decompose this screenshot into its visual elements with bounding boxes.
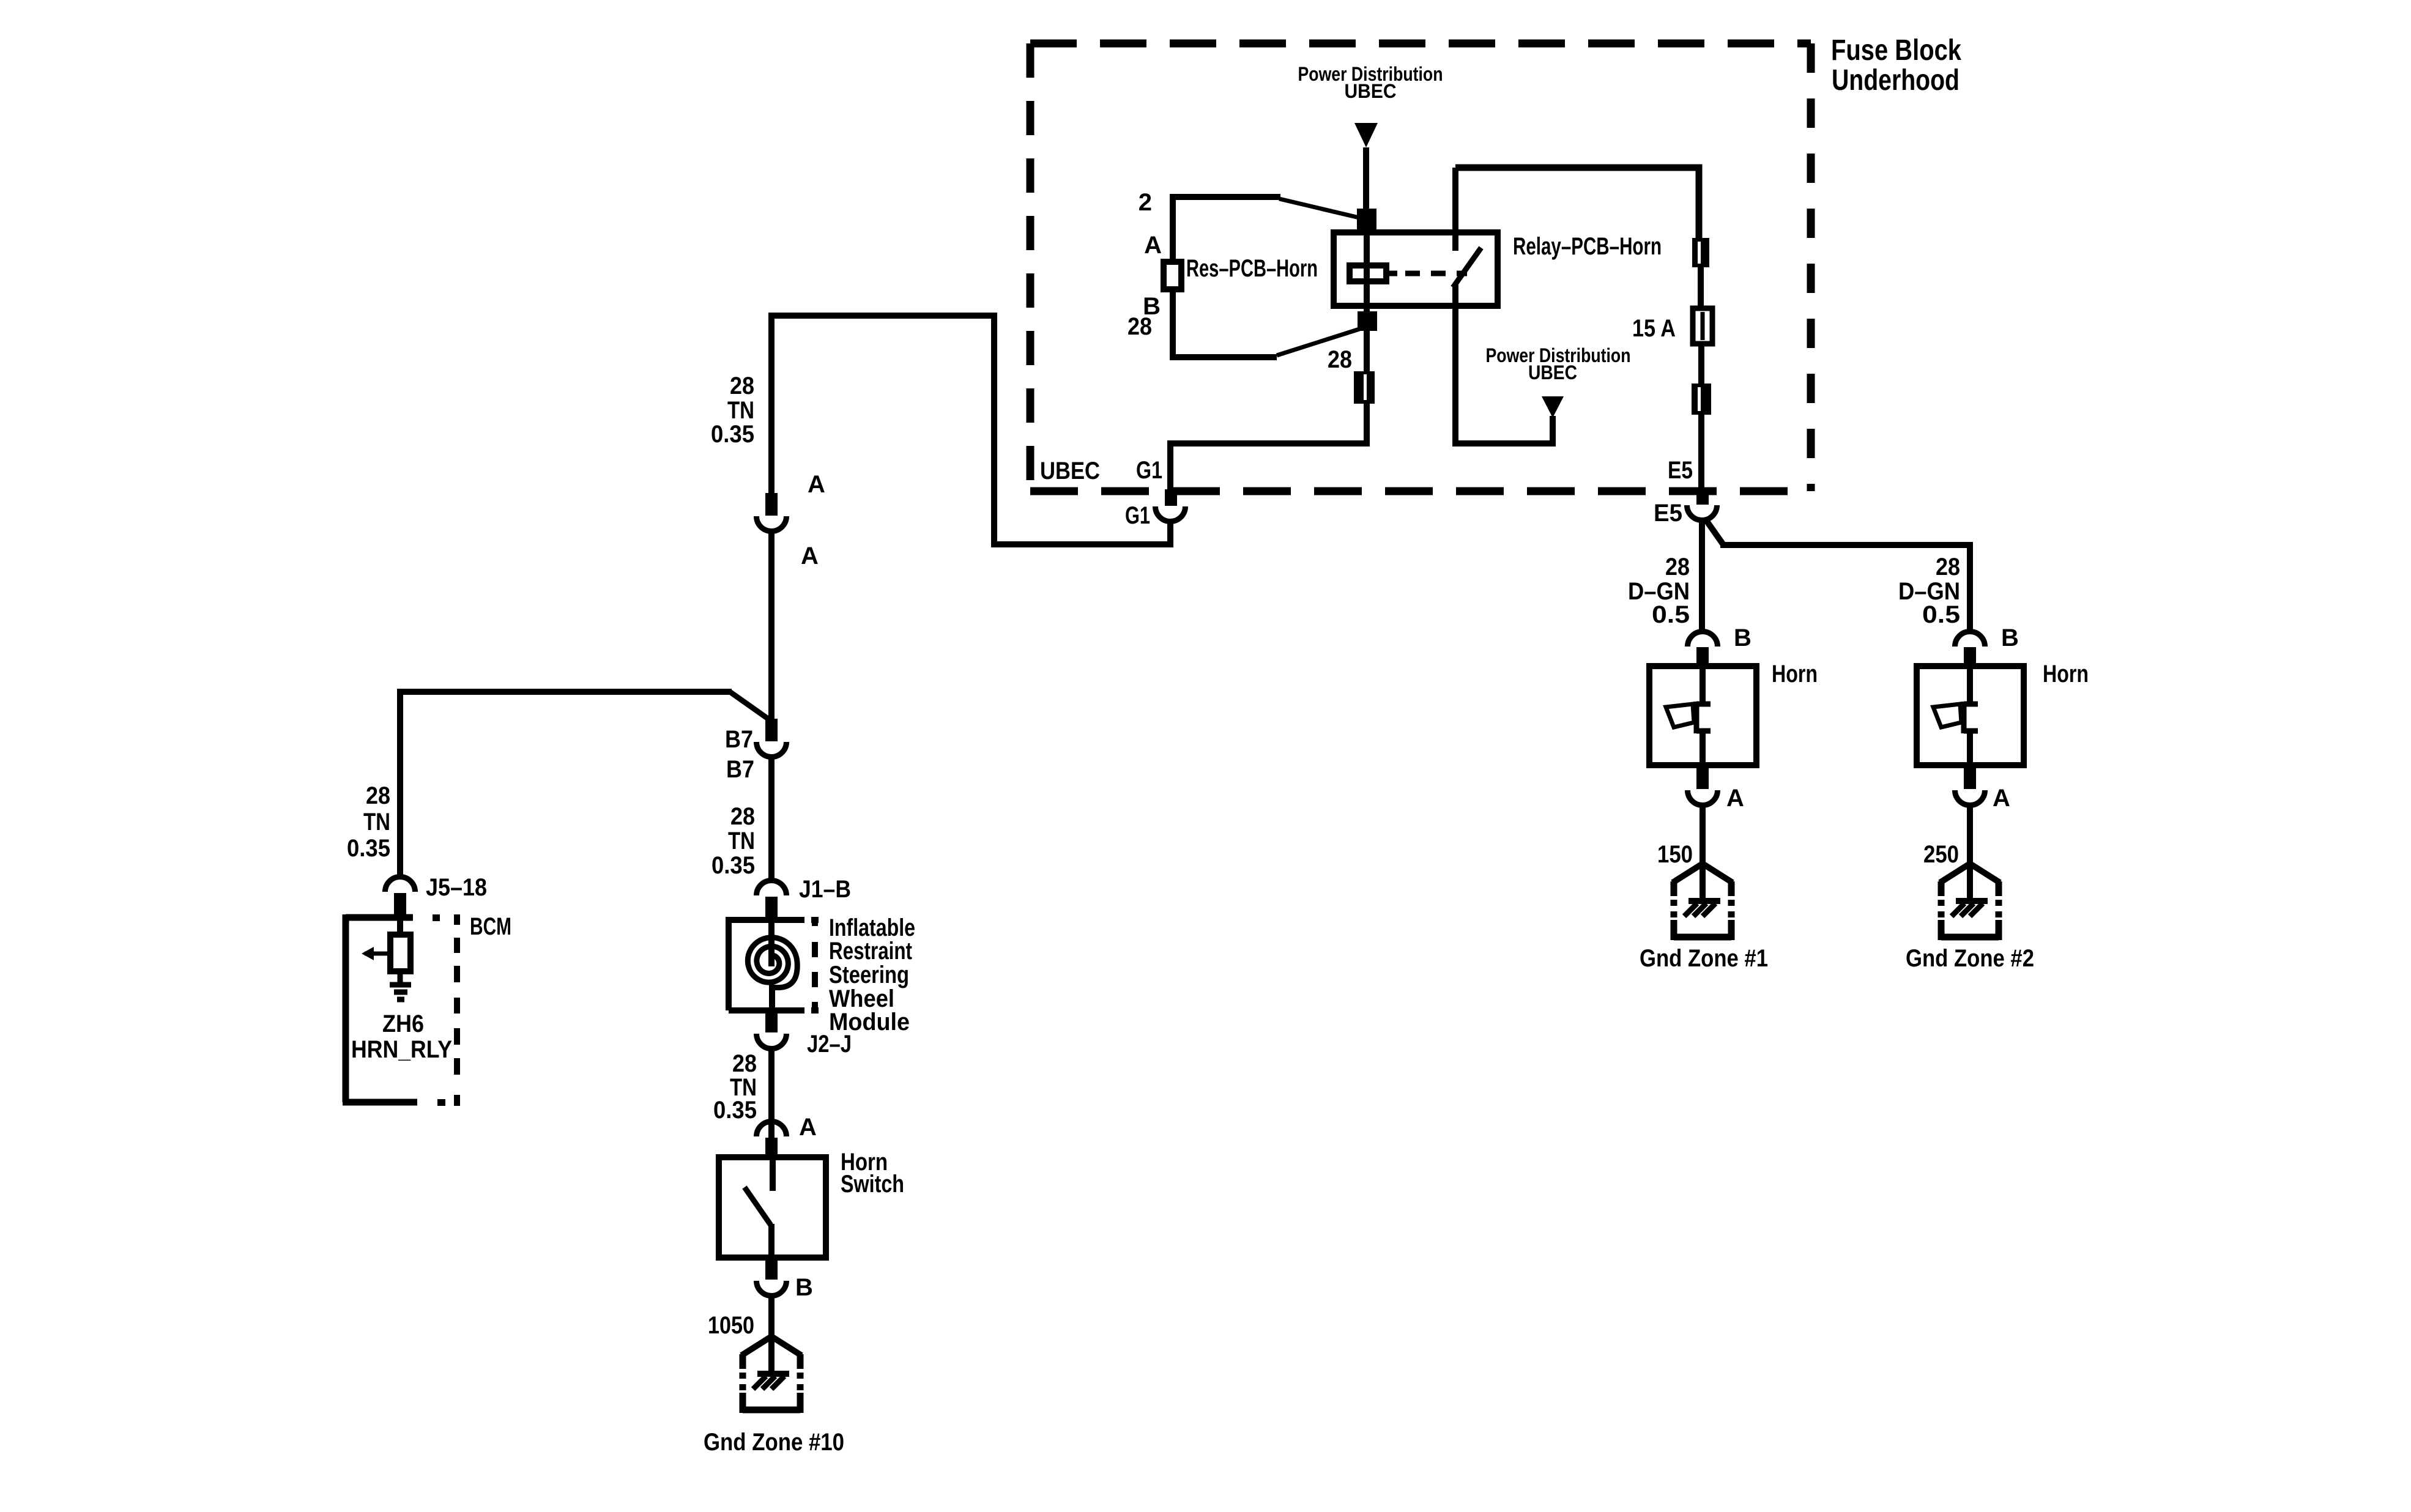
- wire G1 terminal loop: [1170, 404, 1367, 489]
- svg-text:HRN_RLY: HRN_RLY: [351, 1036, 452, 1063]
- svg-text:Underhood: Underhood: [1832, 64, 1960, 97]
- connector A socket: [757, 516, 787, 532]
- res loop top wire: [1173, 197, 1280, 265]
- connector A pin (horn switch): [765, 1138, 778, 1158]
- fuse block underhood dashed box - left edge: [1027, 43, 1035, 491]
- horn 1 bottom pin: [1696, 765, 1709, 789]
- BCM driver arrow: [365, 952, 387, 956]
- svg-text:Res–PCB–Horn: Res–PCB–Horn: [1186, 255, 1318, 282]
- svg-text:J1–B: J1–B: [799, 876, 851, 903]
- module clockspring spiral: [748, 938, 797, 988]
- svg-text:B: B: [2001, 624, 2019, 651]
- BCM box bottom dot: [437, 1099, 445, 1106]
- relay coil wire through coil: [1364, 265, 1370, 281]
- svg-text:0.35: 0.35: [711, 852, 755, 879]
- svg-text:B: B: [795, 1274, 813, 1301]
- connector B7 pin: [765, 719, 778, 741]
- terminal pin (fuse top): [1692, 238, 1709, 267]
- connector J2-J socket: [757, 1034, 787, 1049]
- svg-text:28: 28: [732, 1050, 757, 1077]
- fuse 15 A: [1693, 308, 1712, 344]
- svg-text:28: 28: [730, 803, 755, 830]
- svg-text:E5: E5: [1654, 500, 1682, 527]
- svg-text:28: 28: [366, 782, 390, 809]
- connector B socket (horn 1): [1688, 632, 1718, 647]
- BCM driver ground wire: [398, 971, 403, 984]
- module box solid edges: [729, 920, 804, 1010]
- wire J2-J to horn switch A: [768, 1048, 775, 1139]
- svg-text:28: 28: [1127, 313, 1152, 340]
- svg-text:Horn: Horn: [1772, 661, 1818, 687]
- svg-text:0.35: 0.35: [347, 835, 390, 862]
- svg-text:TN: TN: [363, 809, 390, 836]
- connector G1 socket: [1156, 506, 1186, 522]
- module bottom pin: [765, 1010, 778, 1032]
- svg-text:250: 250: [1923, 841, 1959, 868]
- connector G1 pin: [1165, 489, 1177, 506]
- horn 1 box: [1649, 666, 1756, 765]
- fuse block underhood dashed box - right edge: [1807, 43, 1815, 491]
- ground Gnd Zone 10: [741, 1336, 771, 1355]
- svg-text:TN: TN: [727, 397, 754, 424]
- terminal pin (below fuse): [1692, 384, 1711, 415]
- wire A to B7: [768, 531, 775, 721]
- horn switch pivot wire: [768, 1224, 775, 1258]
- wire J5-18 pin to driver: [397, 917, 403, 937]
- svg-text:15 A: 15 A: [1632, 315, 1676, 342]
- svg-text:A: A: [808, 471, 825, 498]
- svg-text:UBEC: UBEC: [1040, 458, 1100, 484]
- svg-text:Switch: Switch: [841, 1171, 904, 1198]
- connector B socket (horn 2): [1955, 632, 1985, 647]
- svg-text:Gnd Zone #1: Gnd Zone #1: [1640, 945, 1768, 972]
- svg-text:A: A: [1144, 232, 1162, 259]
- svg-text:Fuse Block: Fuse Block: [1831, 34, 1961, 67]
- fuse block underhood dashed box - bottom edge: [1030, 487, 1811, 495]
- connector A socket (horn switch): [757, 1121, 787, 1136]
- svg-text:J5–18: J5–18: [426, 874, 487, 901]
- connector B socket (horn switch): [757, 1281, 787, 1296]
- connector J1-B pin: [765, 897, 778, 920]
- svg-text:1050: 1050: [708, 1312, 754, 1339]
- svg-text:A: A: [801, 543, 819, 569]
- svg-text:0.5: 0.5: [1652, 601, 1690, 628]
- ground Gnd Zone 1: [1673, 864, 1703, 883]
- wire BCM branch horizontal: [400, 692, 732, 878]
- power distribution arrow (relay output): [1542, 396, 1564, 418]
- svg-text:Steering: Steering: [829, 962, 909, 988]
- connector B7 socket: [757, 742, 787, 757]
- svg-text:B: B: [1734, 624, 1752, 651]
- res loop bottom diagonal: [1277, 329, 1359, 355]
- svg-text:BCM: BCM: [470, 913, 511, 940]
- connector A socket (horn 2): [1955, 790, 1985, 806]
- terminal 28 below relay: [1354, 371, 1375, 404]
- svg-text:0.35: 0.35: [711, 421, 754, 448]
- relay switch blade: [1453, 248, 1481, 287]
- svg-text:UBEC: UBEC: [1345, 80, 1397, 102]
- connector E5 socket: [1687, 505, 1717, 521]
- BCM box dashed right edge: [454, 914, 460, 925]
- wire terminal to E5 pin: [1698, 415, 1704, 489]
- relay switch fixed contact from top: [1452, 168, 1458, 251]
- svg-text:Restraint: Restraint: [829, 938, 912, 965]
- svg-text:G1: G1: [1136, 457, 1162, 484]
- wire horn switch B to ground: [768, 1295, 775, 1341]
- svg-text:UBEC: UBEC: [1528, 361, 1577, 384]
- svg-text:0.35: 0.35: [713, 1097, 757, 1124]
- horn switch box: [719, 1157, 826, 1258]
- svg-text:28: 28: [1665, 554, 1690, 580]
- horn switch blade: [745, 1187, 771, 1225]
- wire arrow to relay coil pin: [1363, 147, 1369, 209]
- wire pin to fuse: [1698, 267, 1704, 311]
- svg-text:B7: B7: [726, 756, 754, 783]
- relay Relay-PCB-Horn box: [1334, 232, 1498, 306]
- horn 2 box: [1917, 666, 2024, 765]
- connector J1-B socket: [757, 881, 787, 896]
- wire horn 1 to ground: [1700, 805, 1706, 865]
- wire E5 to horn 1: [1699, 521, 1705, 631]
- horn 2 bottom pin: [1964, 765, 1976, 789]
- svg-text:28: 28: [1936, 554, 1960, 580]
- svg-text:A: A: [1993, 785, 2010, 812]
- power feed arrow (top): [1354, 123, 1378, 147]
- svg-text:B7: B7: [725, 726, 753, 753]
- wire G1 down-left-up to center column: [771, 316, 1170, 544]
- svg-text:Horn: Horn: [2043, 661, 2089, 687]
- svg-text:Gnd Zone #2: Gnd Zone #2: [1906, 945, 2034, 972]
- relay coil bottom pin: [1358, 311, 1377, 331]
- relay coil wire: [1364, 231, 1370, 371]
- connector J5-18 pin: [394, 893, 406, 918]
- res loop top diagonal: [1279, 199, 1359, 218]
- connector B pin (horn 2): [1964, 647, 1976, 666]
- svg-text:Gnd Zone #10: Gnd Zone #10: [704, 1429, 844, 1456]
- horn 1 symbol: [1700, 669, 1706, 702]
- wire horn 2 to ground: [1967, 805, 1973, 865]
- svg-text:Relay–PCB–Horn: Relay–PCB–Horn: [1513, 233, 1662, 260]
- relay coil top pin: [1357, 209, 1376, 231]
- svg-text:ZH6: ZH6: [382, 1010, 424, 1037]
- connector E5 pin: [1696, 487, 1709, 505]
- svg-text:0.5: 0.5: [1922, 601, 1960, 628]
- svg-text:A: A: [799, 1114, 817, 1141]
- connector J5-18 socket: [385, 877, 415, 892]
- BCM box solid edges: [346, 914, 413, 921]
- wire BCM branch diagonal: [730, 692, 771, 721]
- res loop bottom wire: [1173, 286, 1277, 357]
- svg-text:E5: E5: [1668, 457, 1693, 484]
- module clockspring wire out: [769, 985, 775, 1010]
- svg-text:2: 2: [1139, 189, 1152, 216]
- relay switch pivot wire down to arrow: [1455, 285, 1553, 443]
- fuse block underhood dashed box - top edge: [1030, 40, 1811, 48]
- connector A pin: [765, 493, 778, 516]
- horn 2 symbol: [1967, 669, 1973, 702]
- wire fuse to terminal: [1698, 344, 1704, 386]
- BCM driver ground: [390, 982, 411, 988]
- svg-text:A: A: [1726, 785, 1744, 812]
- resistor Res-PCB-Horn: [1164, 262, 1181, 289]
- svg-text:TN: TN: [728, 828, 755, 854]
- horn switch bottom pin: [765, 1258, 778, 1280]
- connector B pin (horn 1): [1696, 647, 1709, 666]
- relay coil: [1350, 265, 1386, 281]
- svg-text:150: 150: [1657, 841, 1693, 868]
- top wire from relay switch to fuse column: [1455, 168, 1699, 240]
- wire E5 diagonal to horn 2 branch: [1705, 519, 1724, 546]
- module box dashed right edge: [811, 917, 819, 923]
- svg-text:28: 28: [730, 372, 754, 399]
- module clockspring wire in: [768, 920, 775, 966]
- svg-text:G1: G1: [1125, 502, 1150, 529]
- BCM driver ZH6 resistor: [390, 935, 411, 971]
- BCM box top dot: [433, 914, 440, 921]
- relay coil dashed actuator link stub: [1386, 271, 1397, 276]
- horn switch fixed contact: [770, 1157, 776, 1191]
- wire branch to horn 2: [1720, 545, 1970, 631]
- connector A socket (horn 1): [1688, 790, 1718, 806]
- svg-text:28: 28: [1328, 346, 1352, 373]
- wire B7 to J1-B: [768, 757, 775, 882]
- svg-text:J2–J: J2–J: [807, 1031, 852, 1058]
- relay coil dashed actuator link: [1405, 271, 1467, 276]
- ground Gnd Zone 2: [1940, 864, 1970, 883]
